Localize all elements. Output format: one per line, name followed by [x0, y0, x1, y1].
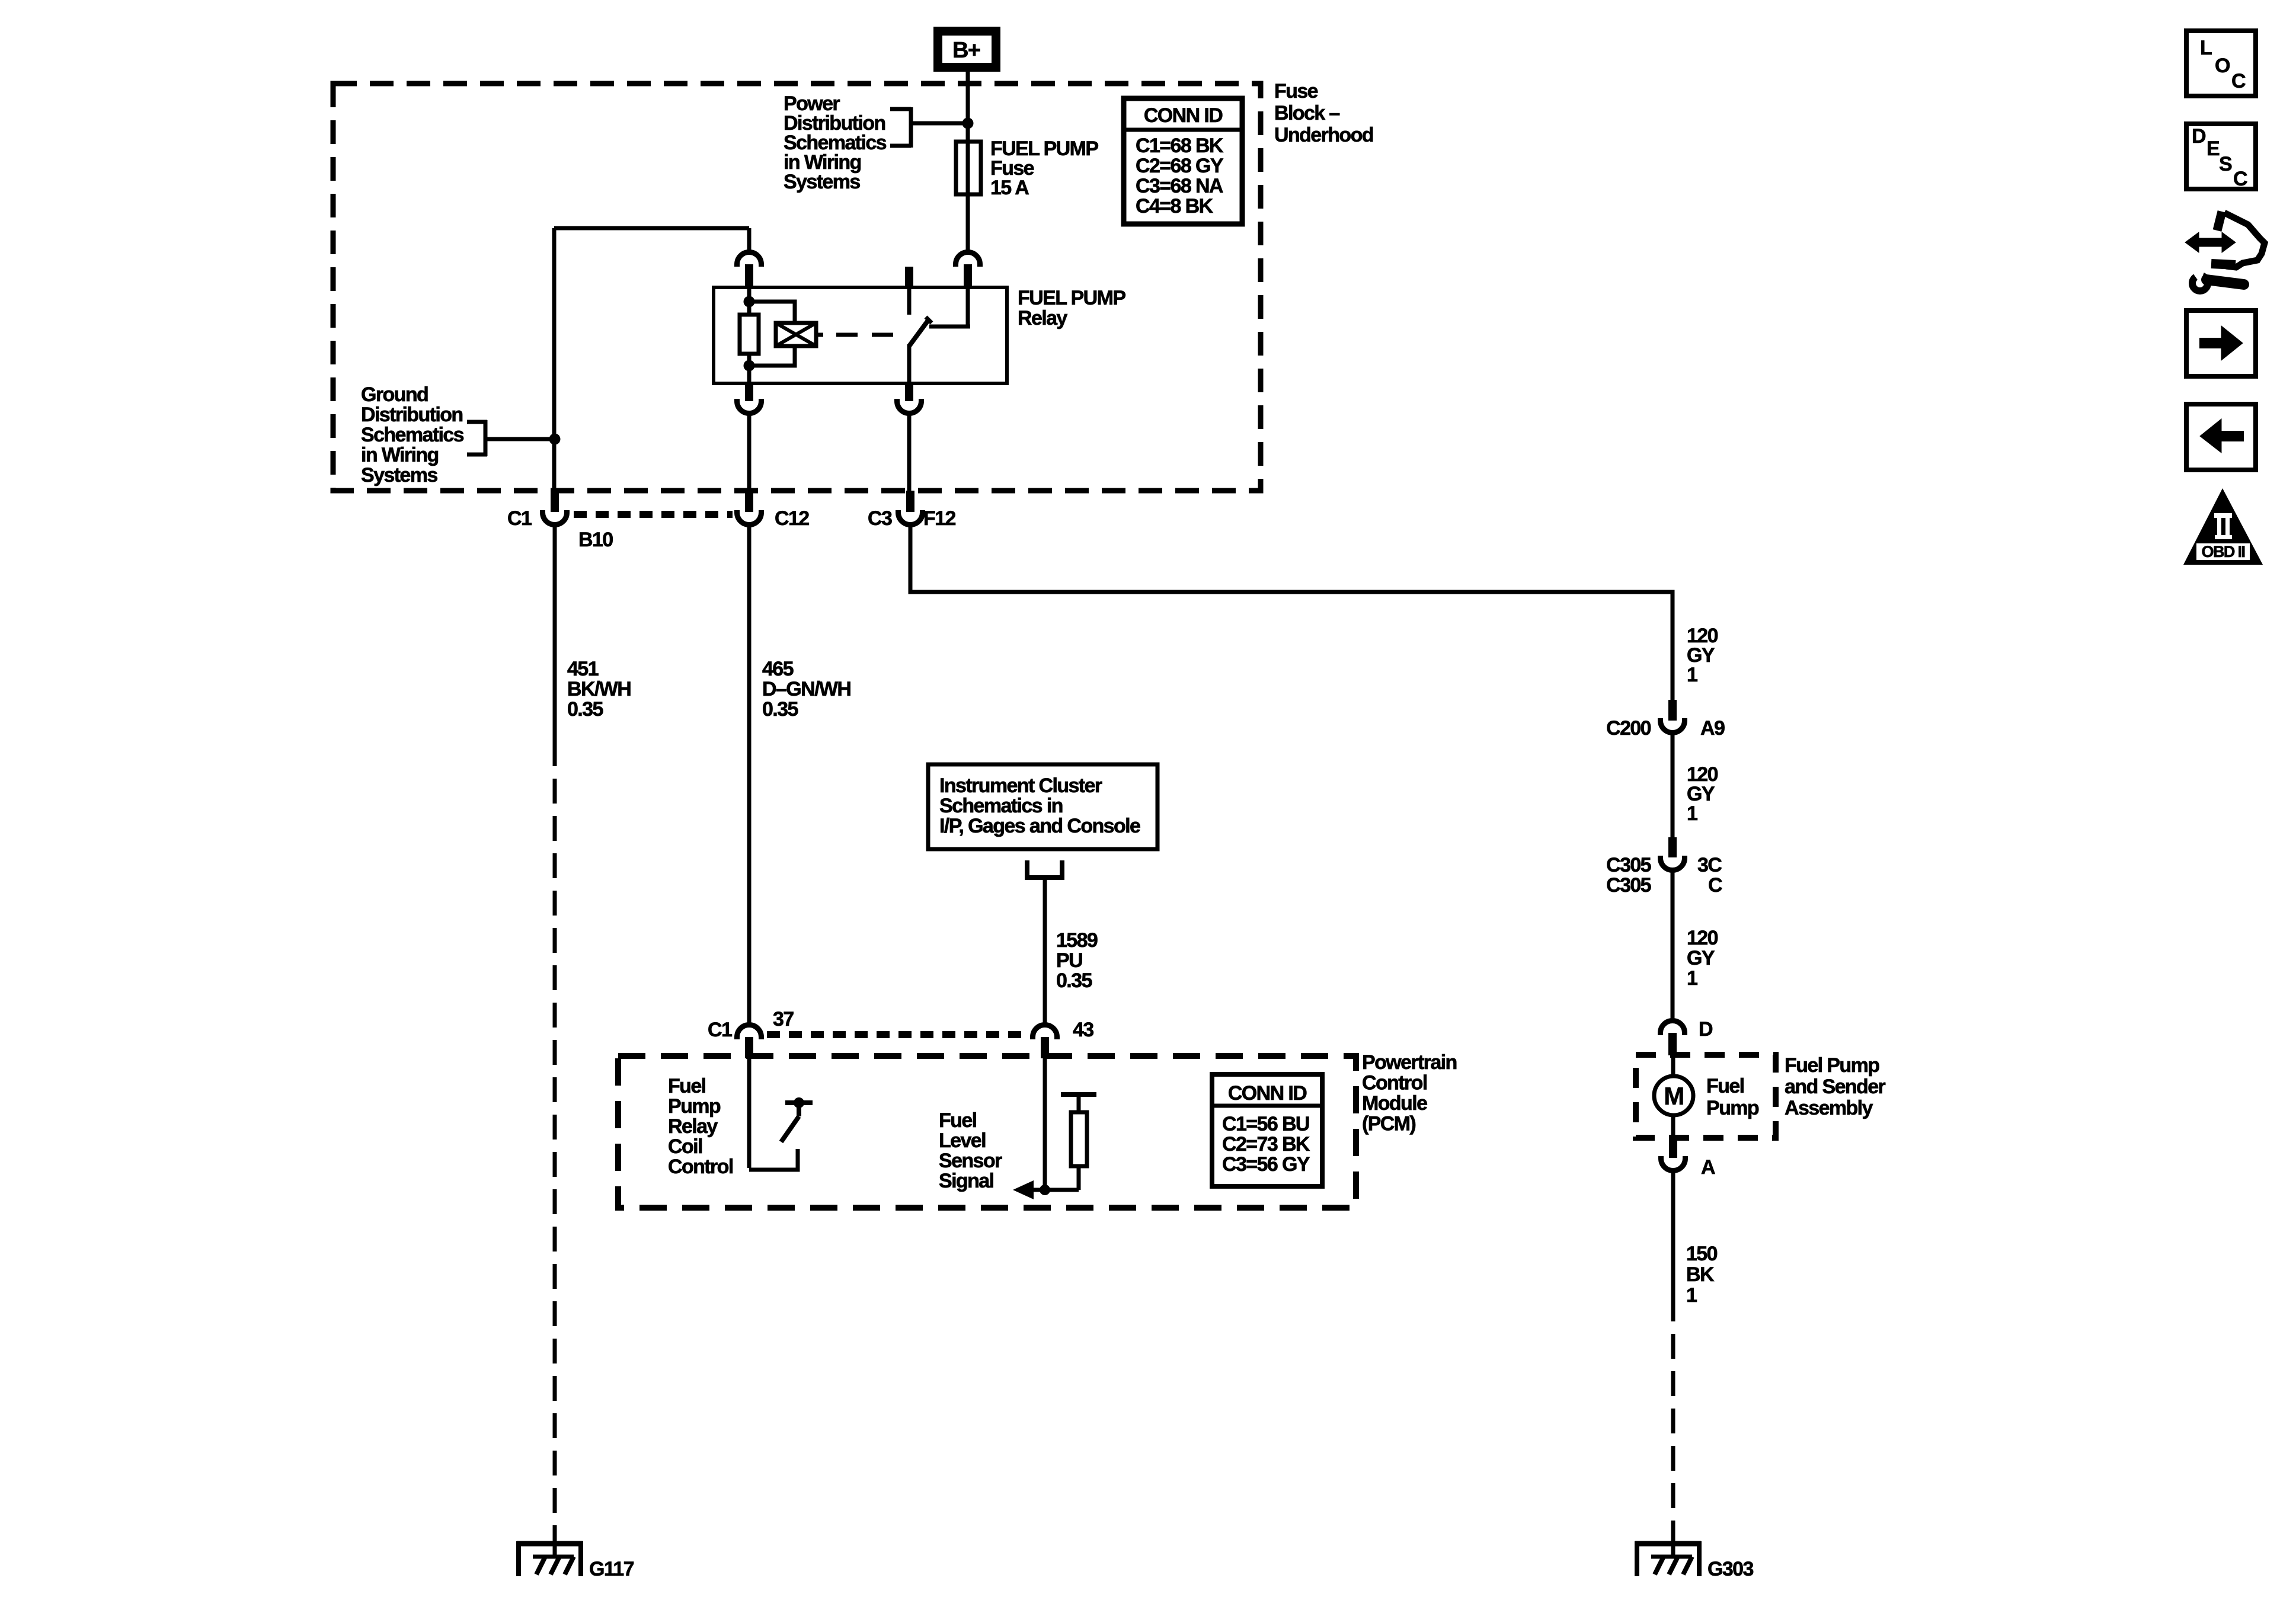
svg-text:1589: 1589 [1056, 929, 1098, 952]
svg-text:1: 1 [1686, 1284, 1697, 1307]
svg-text:Schematics: Schematics [361, 424, 464, 446]
svg-text:Systems: Systems [784, 171, 860, 193]
svg-text:PU: PU [1056, 949, 1082, 972]
svg-text:S: S [2219, 153, 2232, 175]
svg-text:C1=68 BK: C1=68 BK [1136, 135, 1224, 157]
svg-text:CONN ID: CONN ID [1144, 104, 1223, 127]
svg-text:C1=56 BU: C1=56 BU [1222, 1113, 1309, 1135]
svg-text:1: 1 [1687, 967, 1697, 990]
svg-text:L: L [2200, 37, 2212, 59]
svg-text:0.35: 0.35 [1056, 969, 1092, 992]
svg-text:0.35: 0.35 [762, 698, 798, 721]
svg-text:Instrument Cluster: Instrument Cluster [939, 774, 1102, 797]
svg-text:F12: F12 [923, 507, 955, 530]
svg-text:O: O [2215, 55, 2230, 77]
svg-text:I/P, Gages and Console: I/P, Gages and Console [939, 815, 1140, 837]
svg-text:Relay: Relay [668, 1115, 718, 1138]
svg-text:Fuel: Fuel [668, 1075, 706, 1097]
svg-text:C12: C12 [775, 507, 809, 530]
svg-text:C3=56 GY: C3=56 GY [1222, 1153, 1310, 1176]
svg-text:C1: C1 [507, 507, 532, 530]
svg-text:and Sender: and Sender [1785, 1076, 1886, 1098]
svg-text:C4=8 BK: C4=8 BK [1136, 195, 1214, 217]
svg-text:(PCM): (PCM) [1362, 1113, 1415, 1135]
svg-text:120: 120 [1687, 927, 1718, 949]
svg-text:G303: G303 [1707, 1558, 1753, 1580]
svg-text:Sensor: Sensor [939, 1150, 1002, 1172]
svg-text:D–GN/WH: D–GN/WH [762, 678, 850, 700]
svg-text:Assembly: Assembly [1785, 1097, 1873, 1119]
svg-text:in Wiring: in Wiring [361, 444, 439, 466]
svg-text:1: 1 [1687, 664, 1697, 686]
svg-text:OBD II: OBD II [2202, 543, 2245, 561]
svg-text:0.35: 0.35 [567, 698, 603, 721]
svg-text:B+: B+ [952, 38, 980, 63]
svg-text:Pump: Pump [668, 1095, 721, 1118]
svg-text:C305: C305 [1606, 854, 1651, 876]
svg-text:Module: Module [1362, 1092, 1427, 1115]
svg-text:Level: Level [939, 1129, 986, 1152]
svg-text:E: E [2207, 137, 2220, 160]
svg-text:C1: C1 [708, 1019, 732, 1041]
svg-text:FUEL PUMP: FUEL PUMP [1018, 287, 1125, 309]
svg-text:A9: A9 [1700, 717, 1725, 740]
svg-text:Fuel: Fuel [1706, 1075, 1744, 1097]
svg-text:M: M [1664, 1082, 1683, 1110]
svg-text:Control: Control [668, 1156, 733, 1178]
svg-text:D: D [2192, 125, 2206, 148]
svg-text:C2=73 BK: C2=73 BK [1222, 1133, 1310, 1156]
svg-text:C: C [1708, 874, 1722, 897]
svg-text:C3=68 NA: C3=68 NA [1136, 175, 1223, 197]
svg-text:G117: G117 [589, 1558, 634, 1580]
svg-text:37: 37 [773, 1008, 794, 1030]
svg-text:451: 451 [567, 658, 599, 680]
svg-text:1: 1 [1687, 802, 1697, 825]
svg-text:Coil: Coil [668, 1135, 702, 1158]
svg-text:Pump: Pump [1706, 1097, 1759, 1119]
svg-text:43: 43 [1073, 1019, 1093, 1041]
svg-text:C: C [2233, 168, 2247, 190]
svg-text:Signal: Signal [939, 1170, 994, 1192]
svg-text:C3: C3 [868, 507, 892, 530]
svg-text:D: D [1699, 1018, 1713, 1041]
svg-text:Block –: Block – [1274, 102, 1339, 124]
svg-text:C: C [2231, 70, 2246, 92]
svg-text:A: A [1701, 1156, 1715, 1179]
svg-text:BK: BK [1686, 1263, 1715, 1286]
svg-text:Powertrain: Powertrain [1362, 1051, 1457, 1074]
svg-text:Fuel: Fuel [939, 1109, 977, 1132]
svg-text:Relay: Relay [1018, 307, 1067, 329]
svg-text:Systems: Systems [361, 464, 437, 486]
svg-text:Fuel Pump: Fuel Pump [1785, 1054, 1879, 1077]
svg-text:465: 465 [762, 658, 794, 680]
svg-text:Control: Control [1362, 1072, 1427, 1094]
svg-text:CONN ID: CONN ID [1228, 1082, 1307, 1105]
svg-text:Underhood: Underhood [1274, 124, 1373, 146]
svg-text:Distribution: Distribution [361, 404, 463, 426]
svg-text:BK/WH: BK/WH [567, 678, 631, 700]
svg-text:Ground: Ground [361, 383, 428, 406]
svg-text:C200: C200 [1606, 717, 1651, 740]
svg-text:B10: B10 [578, 529, 613, 551]
svg-text:150: 150 [1686, 1243, 1718, 1265]
svg-text:C305: C305 [1606, 874, 1651, 897]
svg-text:Fuse: Fuse [1274, 80, 1318, 103]
svg-text:GY: GY [1687, 947, 1715, 969]
svg-text:15 A: 15 A [990, 177, 1029, 199]
svg-text:C2=68 GY: C2=68 GY [1136, 155, 1224, 177]
svg-text:Schematics in: Schematics in [939, 795, 1063, 817]
svg-text:3C: 3C [1697, 854, 1722, 876]
